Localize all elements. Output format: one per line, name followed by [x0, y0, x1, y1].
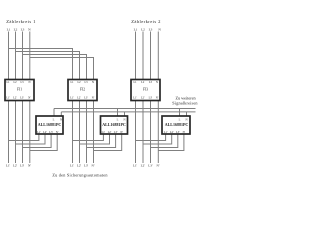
svg-text:L3': L3': [20, 97, 24, 100]
svg-text:Zählerkreis 1: Zählerkreis 1: [6, 19, 36, 24]
wire U3 pin L1' to FI3 output: [136, 135, 166, 141]
wire tap L2 to FI2: [16, 52, 80, 80]
svg-text:FI3: FI3: [143, 88, 148, 92]
RCD FI1: [5, 80, 34, 101]
wire N circuit1 vertical: [29, 32, 31, 164]
svg-text:N: N: [28, 81, 30, 84]
wire U1 pin N' to FI1 output: [30, 135, 57, 151]
wire N circuit2 vertical: [157, 32, 159, 164]
wire N drop to U2: [124, 112, 126, 116]
svg-text:L2: L2: [141, 28, 145, 32]
svg-text:L3: L3: [21, 28, 25, 32]
wire L2 circuit2 vertical: [142, 32, 144, 164]
svg-text:L2': L2': [170, 131, 174, 134]
wire U3 pin L2' to FI3 output: [143, 135, 172, 145]
wire U1 pin L3' to FI1 output: [23, 135, 52, 148]
wire L3 circuit1 vertical: [22, 32, 24, 164]
svg-text:L1': L1': [164, 131, 168, 134]
svg-text:L1': L1': [133, 164, 138, 168]
wire tap N to FI2: [30, 58, 94, 80]
wire U2 pin N' to FI2 output: [94, 135, 122, 151]
wire N supply bus: [61, 111, 195, 113]
wire N drop to U3: [186, 112, 188, 116]
meter U2 ALL1688PC: [101, 116, 128, 134]
svg-text:L3': L3': [176, 131, 180, 134]
svg-text:ALL16881PC: ALL16881PC: [165, 122, 189, 127]
svg-text:L3': L3': [149, 97, 153, 100]
svg-text:L1': L1': [6, 164, 11, 168]
svg-text:L2': L2': [108, 131, 112, 134]
svg-text:N': N': [28, 164, 31, 168]
svg-text:L2': L2': [13, 97, 17, 100]
wire tap L3 to FI2: [23, 55, 87, 80]
meter U1 ALL1688PC: [36, 116, 63, 134]
wire FI2 output L2' down: [79, 101, 81, 164]
wire L drop to U3: [179, 109, 181, 117]
wire tap L1 to FI2: [9, 49, 73, 80]
wire U2 pin L3' to FI2 output: [87, 135, 116, 148]
svg-text:N: N: [156, 81, 158, 84]
svg-text:L3': L3': [20, 164, 25, 168]
wire U2 pin L2' to FI2 output: [80, 135, 110, 145]
svg-text:L3': L3': [148, 164, 153, 168]
svg-text:ALL16881PC: ALL16881PC: [38, 122, 62, 127]
wire U1 pin L1' to FI1 output: [9, 135, 39, 141]
svg-text:ALL16881PC: ALL16881PC: [102, 122, 126, 127]
svg-text:N': N': [92, 164, 95, 168]
svg-text:L2': L2': [141, 97, 145, 100]
svg-text:Signalkreisen: Signalkreisen: [172, 100, 198, 105]
svg-text:L2': L2': [77, 164, 82, 168]
wire FI2 output N' down: [93, 101, 95, 164]
svg-text:N': N': [157, 164, 160, 168]
wire L3 circuit2 vertical: [150, 32, 152, 164]
svg-text:L3': L3': [114, 131, 118, 134]
svg-text:L1': L1': [102, 131, 106, 134]
meter U3 ALL1688PC: [162, 116, 190, 134]
svg-text:L1': L1': [70, 164, 75, 168]
wire L2 circuit1 vertical: [15, 32, 17, 164]
svg-text:N: N: [92, 81, 94, 84]
svg-text:L1': L1': [133, 97, 137, 100]
svg-text:L3': L3': [84, 97, 88, 100]
svg-text:Zählerkreis 2: Zählerkreis 2: [131, 19, 161, 24]
svg-text:L2': L2': [43, 131, 47, 134]
RCD FI2: [68, 80, 97, 101]
svg-text:L2': L2': [13, 164, 18, 168]
svg-text:L2: L2: [14, 28, 18, 32]
wire L drop to U1: [53, 109, 55, 117]
wire FI2 output L1' down: [72, 101, 74, 164]
wire U2 pin L1' to FI2 output: [73, 135, 104, 141]
wire FI2 output L3' down: [86, 101, 88, 164]
svg-text:L2': L2': [141, 164, 146, 168]
wire L supply bus: [54, 108, 196, 110]
svg-text:L1': L1': [37, 131, 41, 134]
svg-text:L1': L1': [6, 97, 10, 100]
svg-text:FI2: FI2: [80, 88, 85, 92]
wire L1 circuit1 vertical to FI1 and down to breakers: [8, 32, 10, 164]
svg-text:L2': L2': [77, 97, 81, 100]
svg-text:L3': L3': [49, 131, 53, 134]
wire L drop to U2: [117, 109, 119, 117]
wire U3 pin N' to FI3 output: [158, 135, 184, 151]
svg-text:L3': L3': [84, 164, 89, 168]
wire U1 pin L2' to FI1 output: [16, 135, 46, 145]
wire L1 circuit2 vertical: [135, 32, 137, 164]
RCD FI3: [131, 80, 160, 101]
svg-text:L1: L1: [134, 28, 138, 32]
svg-text:FI1: FI1: [17, 88, 22, 92]
wire N drop to U1: [60, 112, 62, 116]
svg-text:L1': L1': [70, 97, 74, 100]
svg-text:Zu den Sicherungsautomaten: Zu den Sicherungsautomaten: [52, 173, 108, 178]
svg-text:L1: L1: [7, 28, 11, 32]
svg-text:L3: L3: [149, 28, 153, 32]
wire U3 pin L3' to FI3 output: [151, 135, 178, 148]
